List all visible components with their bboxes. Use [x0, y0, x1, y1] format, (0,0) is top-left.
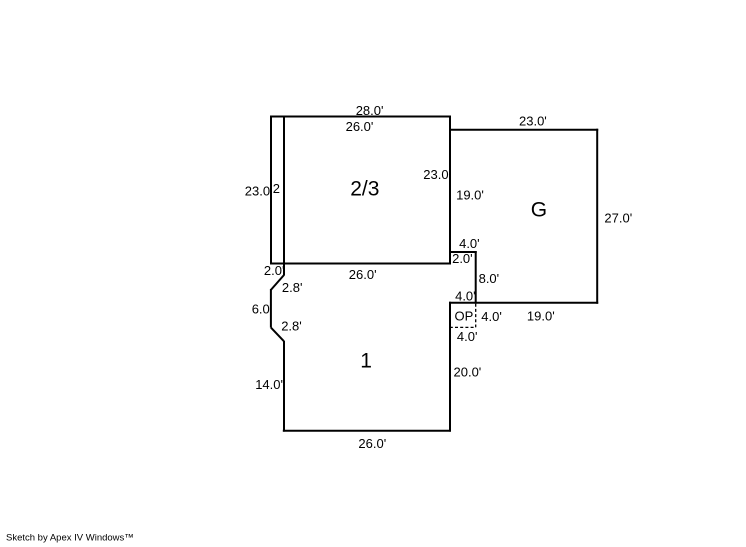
svg-text:2.0': 2.0' [264, 263, 285, 278]
svg-text:26.0': 26.0' [358, 436, 386, 451]
svg-text:23.0': 23.0' [245, 184, 273, 199]
wall: garage G lower-left (8.0') [475, 251, 477, 304]
svg-text:6.0': 6.0' [252, 301, 273, 316]
open porch OP dashed bottom edge (4.0') [450, 326, 476, 328]
svg-text:2.8': 2.8' [281, 318, 302, 333]
svg-text:2.8': 2.8' [282, 280, 303, 295]
svg-text:2/3: 2/3 [350, 177, 379, 200]
svg-text:2: 2 [273, 181, 280, 196]
wall: area 1 lower-left (14.0') [283, 341, 285, 432]
svg-text:27.0': 27.0' [604, 211, 632, 226]
svg-text:G: G [531, 198, 547, 221]
wall: area 2/3 bottom / area 1 top (26.0') [270, 263, 451, 265]
wall: area 1 lower-left diagonal (2.8') [271, 328, 284, 342]
svg-text:26.0': 26.0' [349, 267, 377, 282]
wall: garage G top (23.0') [449, 129, 598, 131]
wall: area 1 right (20.0') [449, 302, 451, 432]
wall: area 2/3 top (28.0') [270, 116, 451, 118]
svg-text:28.0': 28.0' [356, 103, 384, 118]
svg-text:19.0': 19.0' [527, 308, 555, 323]
svg-text:4.0': 4.0' [459, 236, 480, 251]
wall: area 1 bottom (26.0') [283, 430, 451, 432]
svg-text:8.0': 8.0' [479, 271, 500, 286]
svg-text:23.0': 23.0' [519, 113, 547, 128]
svg-text:20.0': 20.0' [454, 364, 482, 379]
svg-text:14.0': 14.0' [255, 377, 283, 392]
svg-text:4.0': 4.0' [455, 288, 476, 303]
wall: garage G bottom (19.0') and OP top (4.0') [449, 302, 598, 304]
wall: area 2/3 outer left (23.0') [270, 116, 272, 265]
svg-text:19.0': 19.0' [456, 188, 484, 203]
open porch OP dashed right edge (4.0') [475, 304, 477, 328]
wall: area 1 left (6.0') [270, 289, 272, 328]
svg-text:23.0': 23.0' [423, 167, 451, 182]
wall: interior strip line (area 2, extends 2.0' below) [283, 116, 285, 276]
svg-text:26.0': 26.0' [346, 119, 374, 134]
svg-text:4.0': 4.0' [457, 329, 478, 344]
wall: area 1 upper-left diagonal (2.8') [271, 275, 284, 290]
svg-text:1: 1 [360, 350, 372, 373]
wall: area 2/3 right (23.0') [449, 116, 451, 265]
svg-text:Sketch by Apex IV Windows™: Sketch by Apex IV Windows™ [6, 533, 134, 544]
svg-text:4.0': 4.0' [481, 309, 502, 324]
svg-text:OP: OP [455, 309, 474, 324]
wall: garage G right (27.0') [596, 129, 598, 304]
svg-text:2.0': 2.0' [452, 251, 473, 266]
wall: step between 2/3 and G (4.0') [449, 251, 477, 253]
